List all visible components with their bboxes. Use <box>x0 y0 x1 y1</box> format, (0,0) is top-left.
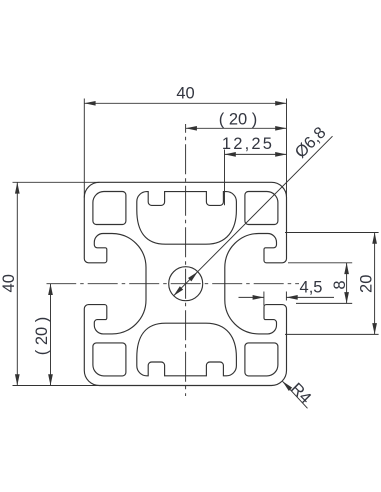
arrow diameter NE on circle <box>188 270 199 281</box>
extension line upper lip underside to right <box>288 262 352 264</box>
arrow R4 at corner <box>281 380 292 391</box>
arrow (20) top left <box>186 126 197 131</box>
dimension line 4,5 left part <box>239 296 264 298</box>
horizontal centerline <box>47 283 300 285</box>
svg-text:( 20 ): ( 20 ) <box>33 317 51 356</box>
extension line lower lip topside to right <box>296 302 352 304</box>
svg-text:Ø6,8: Ø6,8 <box>292 124 330 162</box>
arrow 40 top left <box>84 101 95 106</box>
dimension line 12,25 <box>225 153 287 155</box>
svg-text:( 20 ): ( 20 ) <box>219 111 258 129</box>
arrow (20) top right <box>275 126 286 131</box>
extension line for 12,25 <box>224 150 226 206</box>
extension line slot floor to right <box>285 333 379 335</box>
extension line top edge to left <box>13 181 100 183</box>
extension line bottom edge to left <box>13 385 100 387</box>
dimension line (20) left <box>50 284 52 386</box>
arrow 8 up <box>344 263 349 274</box>
arrow (20) left down <box>48 374 53 385</box>
arrow 12,25 right <box>275 152 286 157</box>
svg-text:R4: R4 <box>287 380 315 408</box>
arrow 40 top right <box>275 101 286 106</box>
svg-text:40: 40 <box>176 84 194 102</box>
arrow 4,5 pointing right <box>253 295 264 300</box>
dimension line 20 right <box>374 233 376 335</box>
svg-text:20: 20 <box>357 275 375 293</box>
extension line lip face for 4,5 <box>263 292 265 306</box>
dimension line 40 left <box>16 182 18 385</box>
extension line right profile edge up <box>286 99 288 198</box>
arrow 8 down <box>344 292 349 303</box>
svg-text:40: 40 <box>0 274 18 292</box>
svg-text:12,25: 12,25 <box>222 135 274 153</box>
extension line slot ceiling to right <box>285 232 379 234</box>
leader line diameter 6,8 <box>174 136 333 296</box>
dimension line 4,5 right part <box>286 296 334 298</box>
vertical centerline <box>185 124 187 396</box>
arrow 40 left down <box>15 374 20 385</box>
arrow 20 right down <box>372 323 377 334</box>
extension line outer edge for 4,5 <box>285 292 287 301</box>
bottom closed slot cavity with break-off tabs <box>137 323 237 376</box>
corner screw channel top-right <box>245 192 278 225</box>
corner screw channel top-left <box>93 192 126 225</box>
dimension line 8 right <box>346 263 348 304</box>
corner screw channel bottom-right <box>245 343 278 376</box>
extension line left profile edge up <box>83 99 85 198</box>
leader line R4 <box>283 381 308 408</box>
arrow diameter SW on circle <box>172 286 183 297</box>
arrow 4,5 pointing left <box>286 295 297 300</box>
arrow 12,25 left <box>225 152 236 157</box>
svg-text:4,5: 4,5 <box>300 278 323 296</box>
arrow 40 left up <box>15 182 20 193</box>
corner screw channel bottom-left <box>93 343 126 376</box>
dimension line 40 top <box>84 102 286 104</box>
arrow 20 right up <box>372 233 377 244</box>
central core bore circle <box>169 267 203 301</box>
profile outer contour with left/right open T-slots <box>84 182 286 385</box>
top closed slot cavity with break-off tabs <box>137 192 237 245</box>
arrow (20) left up <box>48 284 53 295</box>
dimension line (20) top <box>186 127 287 129</box>
svg-text:8: 8 <box>331 280 349 289</box>
